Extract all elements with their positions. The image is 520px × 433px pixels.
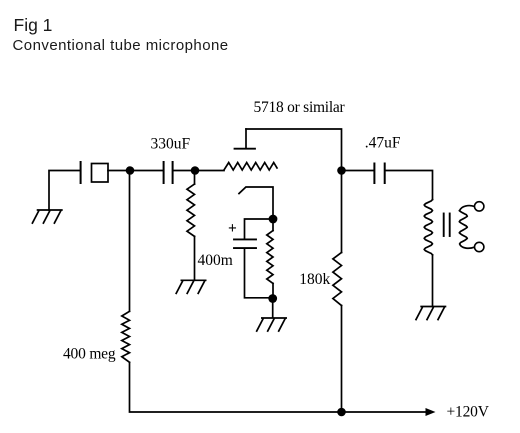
svg-text:400 meg: 400 meg	[63, 346, 116, 363]
svg-text:Conventional tube microphone: Conventional tube microphone	[13, 37, 229, 54]
svg-text:5718 or similar: 5718 or similar	[254, 99, 346, 116]
svg-text:+: +	[228, 220, 237, 237]
svg-text:400m: 400m	[198, 252, 233, 269]
svg-text:180k: 180k	[299, 271, 330, 288]
svg-text:.47uF: .47uF	[365, 134, 401, 151]
svg-text:+120V: +120V	[447, 404, 490, 421]
svg-text:330uF: 330uF	[151, 136, 191, 153]
svg-text:Fig 1: Fig 1	[14, 15, 53, 35]
